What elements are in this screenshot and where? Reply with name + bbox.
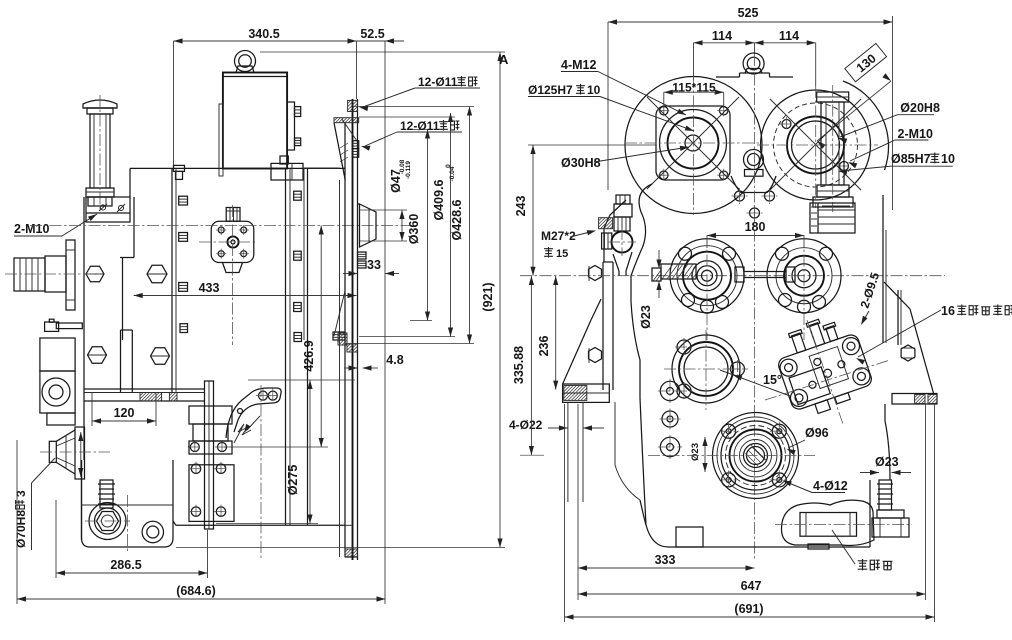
dimension 114 x2 bbox=[694, 42, 816, 44]
inner wall x=286 bbox=[285, 168, 287, 525]
svg-text:4.8: 4.8 bbox=[386, 353, 403, 367]
breather centerline bbox=[99, 95, 101, 212]
dimension 4.8 bbox=[344, 367, 358, 369]
dimension 333 bbox=[578, 567, 755, 569]
svg-text:10: 10 bbox=[941, 152, 955, 166]
housing left lower wall bbox=[614, 402, 616, 465]
right wall bbox=[882, 195, 884, 343]
right boss circle bbox=[761, 90, 871, 200]
lifting eye left view bbox=[235, 51, 256, 72]
hose barb bbox=[100, 480, 113, 508]
dimension 647 bbox=[578, 593, 926, 595]
left side plate bbox=[602, 262, 604, 390]
svg-text:525: 525 bbox=[738, 6, 759, 20]
svg-text:426.9: 426.9 bbox=[302, 340, 316, 371]
svg-text:(684.6): (684.6) bbox=[176, 584, 216, 598]
left wing slope bbox=[591, 299, 601, 320]
bell cone diagonals bbox=[334, 123, 345, 180]
left bearing bbox=[670, 239, 744, 313]
left pump centerline bbox=[5, 273, 100, 275]
dimension Ø23 shaft bbox=[658, 250, 660, 269]
breather hex base bbox=[88, 197, 112, 206]
breather tube bbox=[90, 114, 110, 188]
left plate hex bolts bbox=[589, 266, 602, 281]
hex bolt 2 bbox=[147, 265, 167, 282]
dimension (691) bbox=[565, 616, 935, 618]
shift lever bbox=[226, 388, 281, 438]
svg-text:340.5: 340.5 bbox=[248, 27, 279, 41]
pump flange studs top bbox=[226, 208, 240, 222]
breather pad block bbox=[86, 197, 130, 222]
breather2 collar bbox=[817, 185, 849, 197]
ext lines right bbox=[925, 404, 927, 600]
sump plug small bbox=[142, 521, 163, 542]
left column wall bbox=[133, 197, 135, 258]
svg-text:Ø85H7: Ø85H7 bbox=[891, 152, 931, 166]
svg-text:-0.119: -0.119 bbox=[405, 161, 412, 179]
sump outline bbox=[82, 460, 174, 547]
right wall lower bbox=[884, 404, 886, 421]
svg-text:10: 10 bbox=[587, 83, 601, 97]
left valve block bbox=[40, 338, 75, 371]
saddle outline bbox=[731, 176, 776, 193]
M27 valve bbox=[616, 195, 630, 204]
mid flange bbox=[672, 335, 740, 403]
svg-text:52.5: 52.5 bbox=[360, 27, 384, 41]
svg-text:4-Ø22: 4-Ø22 bbox=[509, 418, 543, 432]
svg-text:(691): (691) bbox=[734, 602, 763, 616]
hex bolt 3 bbox=[88, 347, 107, 363]
oil filter bbox=[781, 500, 874, 545]
right wing slope bbox=[884, 282, 910, 309]
dimension Ø47 bbox=[401, 210, 403, 241]
lifting eye mid bbox=[744, 150, 764, 170]
centerline shafts bbox=[520, 275, 945, 277]
flange bottom foot bbox=[345, 549, 358, 557]
left flange plate bbox=[656, 106, 730, 180]
dimension Ø409.6 bbox=[450, 113, 452, 337]
housing top plateau bbox=[740, 72, 770, 74]
small circles column bbox=[660, 381, 679, 400]
svg-text:15: 15 bbox=[556, 248, 568, 260]
svg-text:114: 114 bbox=[712, 29, 732, 43]
svg-text:2-M10: 2-M10 bbox=[14, 222, 49, 236]
wing foot holes bbox=[567, 402, 569, 502]
dimension 52.5 bbox=[357, 40, 386, 42]
svg-text:Ø23: Ø23 bbox=[690, 443, 701, 461]
svg-text:236: 236 bbox=[537, 336, 551, 357]
output flange centerline h bbox=[648, 455, 815, 457]
flange plate lines bbox=[344, 123, 346, 557]
left flange centerlines bbox=[625, 142, 762, 144]
dimension 433 bbox=[134, 295, 357, 297]
dimension 236 bbox=[555, 276, 557, 390]
right wing foot bbox=[892, 394, 937, 405]
sump drain plug big bbox=[89, 503, 126, 540]
pump flange centerlines bbox=[199, 241, 256, 243]
breather2 base bbox=[813, 197, 853, 207]
label Ø70H8-3 bbox=[14, 490, 28, 548]
top pump mount bbox=[271, 163, 303, 180]
flange bottom hatch bbox=[347, 344, 358, 352]
dimension 335.88 bbox=[530, 276, 532, 455]
input shaft stub bbox=[661, 264, 696, 279]
valve axes bbox=[765, 360, 890, 400]
lifting eye right top bbox=[743, 53, 764, 74]
control valve block bbox=[768, 309, 876, 420]
dimension 525 bbox=[608, 21, 893, 23]
saddle bolts bbox=[735, 191, 745, 201]
svg-text:647: 647 bbox=[741, 579, 762, 593]
dimension Ø428.6 bbox=[469, 107, 471, 344]
right barb bbox=[879, 480, 892, 510]
breather neck bbox=[87, 108, 113, 114]
hex bolt 1 bbox=[86, 266, 104, 282]
inner wall x=172 bbox=[171, 168, 173, 392]
flange top hatch bbox=[348, 100, 358, 111]
cone centerline bbox=[40, 451, 110, 453]
svg-text:Ø428.6: Ø428.6 bbox=[450, 199, 464, 240]
housing inner wall curve bbox=[631, 184, 652, 525]
left wing foot bbox=[563, 384, 610, 402]
breather cap bbox=[83, 100, 117, 108]
svg-text:M27*2: M27*2 bbox=[541, 229, 576, 243]
inner wall x=339 bbox=[339, 180, 341, 525]
svg-text:Ø275: Ø275 bbox=[286, 465, 300, 496]
svg-text:115*115: 115*115 bbox=[672, 81, 716, 95]
shaft stub bbox=[360, 204, 377, 247]
housing left wall bbox=[83, 197, 85, 460]
mid wall studs bbox=[294, 191, 302, 200]
housing bottom bbox=[640, 500, 870, 547]
dimension Ø360 bbox=[427, 130, 429, 321]
svg-text:Ø20H8: Ø20H8 bbox=[900, 101, 940, 115]
cone flange plate bbox=[75, 427, 85, 479]
label filter bbox=[858, 559, 868, 570]
svg-text:Ø70H8: Ø70H8 bbox=[14, 510, 28, 548]
left bearing centerline bbox=[706, 235, 708, 340]
dimension 120 bbox=[92, 420, 156, 422]
bracket pivots bbox=[190, 443, 199, 452]
svg-text:333: 333 bbox=[655, 553, 676, 567]
bracket block 1 bbox=[189, 406, 232, 424]
dim arrows Ø70 bbox=[80, 432, 82, 477]
dimension 130 bbox=[817, 81, 891, 141]
svg-text:3: 3 bbox=[14, 490, 28, 497]
top face bolt bbox=[174, 165, 185, 171]
tower block bbox=[223, 73, 287, 169]
mid flange centerlines bbox=[664, 368, 748, 370]
breather2 tube bbox=[821, 102, 844, 185]
svg-text:16: 16 bbox=[941, 304, 955, 318]
plug centerlines bbox=[127, 495, 129, 552]
main vertical centerline bbox=[754, 54, 756, 560]
svg-text:Ø23: Ø23 bbox=[639, 305, 653, 329]
bracket centerline bbox=[260, 385, 262, 558]
svg-text:Ø96: Ø96 bbox=[805, 426, 829, 440]
left boss circle bbox=[625, 77, 762, 214]
left pump body bbox=[45, 256, 66, 292]
breather2 centerline bbox=[832, 85, 834, 212]
svg-text:Ø360: Ø360 bbox=[407, 214, 421, 245]
pump flange plate bbox=[211, 221, 254, 262]
right bearing bbox=[767, 239, 841, 313]
dimension 180 bbox=[707, 235, 804, 237]
left flange bolts bbox=[660, 107, 668, 115]
right flange bolts 2-M10 bbox=[782, 120, 791, 129]
svg-text:4-M12: 4-M12 bbox=[561, 58, 596, 72]
dimension 33 bbox=[343, 273, 358, 275]
svg-text:Ø409.6: Ø409.6 bbox=[432, 179, 446, 220]
svg-text:12-Ø11: 12-Ø11 bbox=[418, 75, 458, 89]
housing bottom edge bbox=[176, 524, 345, 526]
svg-text:12-Ø11: 12-Ø11 bbox=[400, 119, 440, 133]
right flange circles bbox=[787, 117, 844, 174]
svg-text:(921): (921) bbox=[481, 282, 495, 311]
hex bolt 4 bbox=[151, 348, 170, 364]
svg-text:15°: 15° bbox=[763, 373, 782, 387]
ext lines bottom left bbox=[564, 404, 566, 622]
dimension (684.6) bbox=[17, 598, 386, 600]
dimension 426.9 bbox=[320, 226, 322, 448]
spring symbol bbox=[234, 424, 251, 443]
svg-text:-0.04: -0.04 bbox=[449, 166, 456, 181]
svg-text:A: A bbox=[499, 52, 509, 67]
breather collar bbox=[86, 188, 114, 197]
dimension Ø275 bbox=[309, 380, 311, 524]
main centerline left view bbox=[30, 225, 420, 227]
dimension 340.5 top left view bbox=[174, 40, 357, 42]
rear wall bolts row bbox=[179, 196, 188, 205]
nameplate bbox=[810, 203, 855, 233]
svg-text:433: 433 bbox=[199, 281, 220, 295]
right flange diagonals bbox=[770, 99, 861, 190]
bracket block 2 bbox=[189, 465, 234, 522]
output shaft small dim bbox=[704, 437, 706, 472]
connecting shaft bbox=[744, 271, 786, 273]
inner wall x=307 bbox=[307, 168, 309, 525]
svg-text:Ø125H7: Ø125H7 bbox=[528, 83, 573, 97]
svg-text:180: 180 bbox=[745, 220, 766, 234]
dimension 286.5 bbox=[56, 572, 208, 574]
dimension (921) bbox=[499, 52, 501, 548]
dipstick tube bbox=[120, 330, 122, 393]
right bearing centerline bbox=[803, 235, 805, 340]
dimension 243 bbox=[532, 145, 534, 276]
housing left edge top bbox=[604, 200, 626, 262]
tower side plate bbox=[287, 102, 294, 150]
flange face bolts bbox=[353, 141, 359, 149]
svg-text:33: 33 bbox=[367, 258, 381, 272]
filter centerline bbox=[775, 524, 912, 526]
left pump knurled nut bbox=[14, 258, 45, 291]
svg-text:120: 120 bbox=[114, 406, 135, 420]
svg-text:243: 243 bbox=[514, 196, 528, 217]
svg-text:335.88: 335.88 bbox=[512, 346, 526, 384]
shift rail bbox=[205, 381, 214, 529]
dimension 115*115 bbox=[664, 91, 724, 93]
right flange centerlines bbox=[757, 144, 878, 146]
extension line x=385 bbox=[384, 41, 386, 604]
output flange bbox=[713, 413, 799, 499]
housing top face bbox=[130, 167, 223, 169]
svg-text:114: 114 bbox=[779, 29, 799, 43]
svg-text:Ø23: Ø23 bbox=[875, 455, 899, 469]
right wall hex bolt bbox=[901, 345, 915, 361]
svg-text:2-M10: 2-M10 bbox=[898, 127, 933, 141]
left valve bolt bbox=[45, 322, 59, 331]
svg-text:4-Ø12: 4-Ø12 bbox=[813, 479, 848, 493]
svg-text:Ø30H8: Ø30H8 bbox=[561, 156, 601, 170]
breather2 cap bbox=[817, 92, 849, 102]
svg-text:286.5: 286.5 bbox=[110, 558, 141, 572]
left flange diagonals bbox=[647, 97, 739, 189]
shelf bbox=[84, 388, 205, 390]
